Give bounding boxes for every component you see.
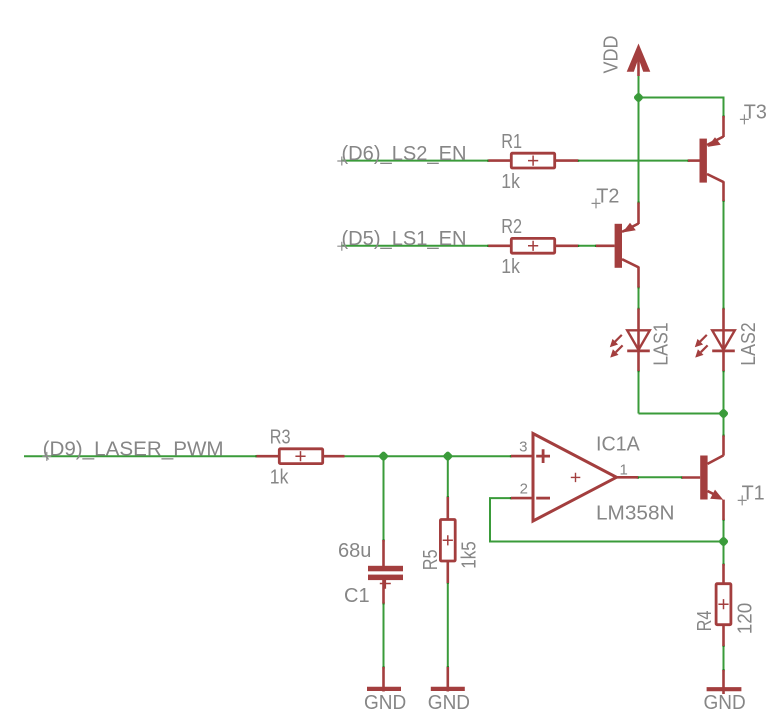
svg-text:R4: R4 — [694, 611, 716, 632]
label T1 — [742, 483, 765, 505]
svg-text:C1: C1 — [344, 585, 370, 607]
svg-text:1: 1 — [620, 462, 628, 479]
value 1k5 of R5 rotated — [459, 541, 481, 569]
svg-text:GND: GND — [428, 692, 470, 714]
transistor T2 PNP — [596, 203, 639, 288]
junction node R5 top — [442, 451, 453, 462]
svg-text:3: 3 — [519, 439, 527, 456]
op-amp U IC1A triangle — [511, 434, 638, 522]
label VDD rotated — [600, 36, 622, 74]
wire LAS1 bottom to LAS2 junction — [639, 413, 724, 415]
value LM358N — [596, 503, 675, 525]
label C1 — [344, 585, 370, 607]
wire net (D9)_LASER_PWM horizontal — [24, 455, 257, 457]
svg-text:1k: 1k — [270, 467, 289, 489]
svg-text:R1: R1 — [501, 131, 522, 153]
svg-text:T3: T3 — [744, 102, 767, 124]
wire R2 to T2 base — [578, 245, 596, 247]
svg-text:T2: T2 — [596, 186, 619, 208]
wire R1 to T3 base — [578, 160, 689, 162]
wire feedback node to op-amp pin2 — [490, 498, 724, 541]
capacitor C1 polarized — [368, 540, 403, 604]
label R4 rotated — [694, 611, 716, 632]
wire T2 collector to LAS1 anode — [638, 287, 640, 309]
svg-text:VDD: VDD — [600, 36, 622, 74]
svg-text:R5: R5 — [420, 549, 442, 570]
junction node R3 out / C1 — [378, 451, 389, 462]
wire VDD vertical to T2 emitter — [638, 76, 640, 203]
value 120 of R4 rotated — [735, 603, 757, 635]
label LAS1 rotated — [650, 322, 672, 366]
junction node LED cathodes — [718, 408, 729, 419]
value 68u of C1 — [338, 540, 371, 562]
value 1k of R2 — [501, 256, 520, 278]
resistor R3 — [257, 449, 345, 464]
net label origin cross (D5) — [337, 242, 346, 251]
origin cross T3 — [740, 114, 749, 124]
svg-text:IC1A: IC1A — [596, 434, 640, 456]
transistor T3 PNP — [688, 116, 724, 201]
net label (D5)_LS1_EN — [342, 228, 467, 250]
wire net (D6)_LS2_EN horizontal — [341, 160, 489, 162]
value 1k of R3 — [270, 467, 289, 489]
label T2 — [596, 186, 619, 208]
svg-text:LAS2: LAS2 — [738, 322, 760, 366]
pin number 2 — [520, 481, 528, 498]
svg-text:LM358N: LM358N — [596, 503, 675, 525]
ground symbol GND under R5 — [431, 667, 465, 692]
ground symbol GND under C1 — [367, 667, 401, 692]
wire T1 emitter to R4 node — [723, 520, 725, 565]
wire VDD junction to T3 branch — [639, 98, 724, 117]
wire C1 to GND — [383, 603, 385, 668]
LED LAS2 — [695, 309, 735, 372]
junction node VDD rail — [633, 92, 644, 103]
svg-text:GND: GND — [704, 692, 746, 714]
power symbol VDD arrow — [627, 44, 651, 77]
value 1k of R1 — [501, 171, 520, 193]
resistor R5 vertical — [440, 497, 455, 583]
resistor R2 — [488, 238, 578, 253]
svg-text:LAS1: LAS1 — [650, 322, 672, 366]
label R1 — [501, 131, 522, 153]
svg-text:(D6)_LS2_EN: (D6)_LS2_EN — [342, 143, 467, 165]
label T3 — [744, 102, 767, 124]
label R2 — [501, 216, 522, 238]
ground symbol GND under R4 — [707, 670, 742, 694]
resistor R1 — [488, 153, 578, 168]
pin number 3 — [519, 439, 527, 456]
junction node T1 emitter / R4 / feedback — [718, 536, 729, 547]
wire R5 to GND — [447, 583, 449, 668]
svg-text:68u: 68u — [338, 540, 371, 562]
svg-text:R2: R2 — [501, 216, 522, 238]
svg-text:120: 120 — [735, 603, 757, 635]
svg-text:1k5: 1k5 — [459, 541, 481, 569]
transistor T1 NPN — [682, 436, 724, 521]
svg-text:T1: T1 — [742, 483, 765, 505]
net label origin cross (D9) — [42, 452, 51, 461]
label R3 — [270, 427, 291, 449]
LED LAS1 — [610, 309, 650, 372]
svg-text:(D5)_LS1_EN: (D5)_LS1_EN — [342, 228, 467, 250]
pin connection dots (dark green pin-end markers) — [255, 115, 724, 671]
label IC1A — [596, 434, 640, 456]
label GND under R4 — [704, 692, 746, 714]
net label (D9)_LASER_PWM — [43, 439, 224, 461]
wire node to C1 — [383, 456, 385, 540]
wire op-amp output to T1 base — [638, 476, 683, 478]
wire net (D5)_LS1_EN horizontal — [341, 245, 489, 247]
resistor R4 vertical — [716, 564, 731, 646]
label GND under C1 — [364, 692, 406, 714]
wire node to R5 — [447, 456, 449, 497]
wire T3 collector to LAS2 anode — [723, 201, 725, 310]
svg-text:1k: 1k — [501, 256, 520, 278]
wire R4 to GND — [723, 646, 725, 671]
wire R3 to op-amp pin3 — [345, 455, 512, 457]
label GND under R5 — [428, 692, 470, 714]
svg-text:GND: GND — [364, 692, 406, 714]
svg-text:(D9)_LASER_PWM: (D9)_LASER_PWM — [43, 439, 224, 461]
svg-text:2: 2 — [520, 481, 528, 498]
wire LAS2 cathode to T1 collector — [723, 371, 725, 436]
net label origin cross (D6) — [337, 157, 346, 166]
label LAS2 rotated — [738, 322, 760, 366]
pin number 1 — [620, 462, 628, 479]
label R5 rotated — [420, 549, 442, 570]
net label (D6)_LS2_EN — [342, 143, 467, 165]
svg-text:R3: R3 — [270, 427, 291, 449]
wire LAS1 cathode down — [638, 371, 640, 414]
origin cross T2 — [592, 198, 601, 208]
origin cross T1 — [738, 495, 747, 505]
svg-text:1k: 1k — [501, 171, 520, 193]
